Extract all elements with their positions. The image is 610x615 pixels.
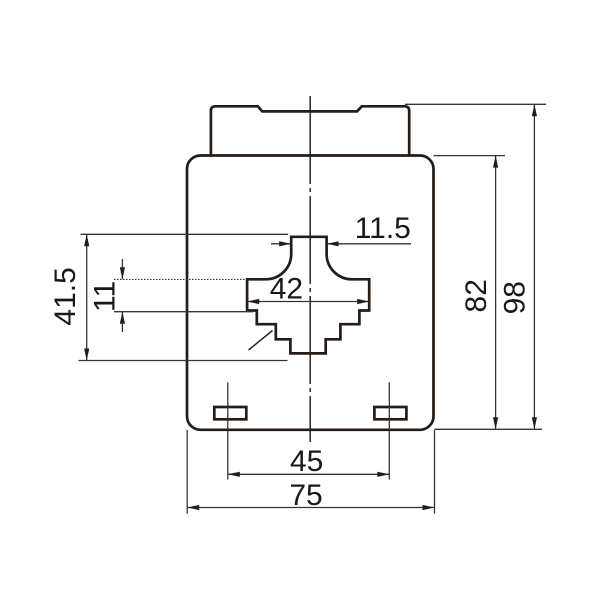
dimension 82 arrow down <box>493 417 498 429</box>
dimension 11.5 left arrow <box>271 243 291 245</box>
svg-text:41.5: 41.5 <box>49 267 82 325</box>
transformer main body outline <box>187 156 434 430</box>
dimension 42 arrow left <box>247 299 259 304</box>
svg-text:75: 75 <box>289 479 322 512</box>
dimension 11 extension line top <box>114 278 247 280</box>
dimension 98 line <box>533 104 535 429</box>
svg-text:82: 82 <box>460 279 493 312</box>
dimension 45 extension line left <box>227 382 229 479</box>
dimension 42 arrow right <box>357 299 369 304</box>
dimension 11 extension line bottom <box>114 311 253 313</box>
dimension 41.5 line <box>86 234 88 360</box>
dimension 75 line <box>187 507 434 509</box>
dimension 75 extension line right <box>434 430 436 514</box>
dimension 11.5 right arrow with tail <box>327 243 411 245</box>
dimension 45 arrow right <box>377 472 389 477</box>
dimension 41.5 extension line top <box>81 233 288 235</box>
dimension 45 line <box>228 473 389 475</box>
right mounting slot <box>374 407 406 419</box>
dimension 41.5 arrow up <box>84 234 89 246</box>
dimension 82 extension line top <box>434 155 506 157</box>
dimension 82 arrow up <box>493 156 498 168</box>
dimension 75 arrow right <box>423 505 435 510</box>
svg-text:11: 11 <box>88 281 121 312</box>
svg-text:42: 42 <box>270 272 303 305</box>
svg-text:45: 45 <box>290 445 323 478</box>
svg-text:11.5: 11.5 <box>355 212 411 245</box>
dimension 82 line <box>495 156 497 430</box>
dimension 11 arrow top (outside) <box>121 259 123 279</box>
dimension 45 arrow left <box>228 472 240 477</box>
dimension 45 extension line right <box>388 382 390 479</box>
dimension 98 arrow up <box>532 104 537 116</box>
dimension 41.5 arrow down <box>84 349 89 361</box>
leader line into staircase <box>249 331 273 351</box>
dimension 41.5 extension line bottom <box>79 360 288 362</box>
dimension 98 extension line top <box>405 103 546 105</box>
centerline <box>309 96 311 442</box>
central hole <box>247 237 369 354</box>
dimension 75 arrow left <box>187 505 199 510</box>
bottom-right extension line (82/98) <box>435 428 543 430</box>
left mounting slot <box>214 407 246 419</box>
dimension 75 extension line left <box>186 430 188 514</box>
dimension 98 arrow down <box>532 417 537 429</box>
dimension 11 arrow bottom (outside) <box>121 312 123 332</box>
svg-text:98: 98 <box>498 281 531 314</box>
dimension 42 line <box>247 301 369 303</box>
transformer top cap outline <box>211 106 409 155</box>
